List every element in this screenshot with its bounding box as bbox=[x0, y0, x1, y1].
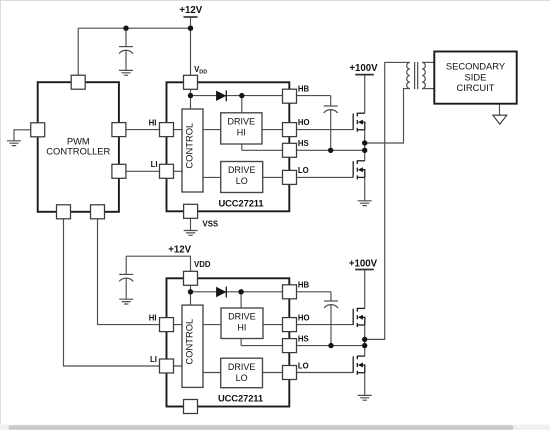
svg-text:HS: HS bbox=[298, 334, 309, 343]
capacitor C4 (bootstrap, bottom bridge) bbox=[324, 301, 338, 308]
wire U2 CONTROL to DRIVE LO to LO pin to Q4 gate bbox=[203, 372, 353, 374]
wire down to PWM top pin bbox=[77, 28, 79, 75]
junction U2 diode cathode node bbox=[238, 289, 243, 294]
svg-text:HB: HB bbox=[298, 85, 310, 94]
wire HB net U1 through diode D1 to bootstrap cap C2 bbox=[191, 95, 331, 97]
svg-text:+100V: +100V bbox=[349, 258, 378, 269]
pin PWM right LI out bbox=[112, 164, 126, 178]
svg-text:HI: HI bbox=[149, 119, 157, 128]
wire switch node to Q2 drain bbox=[364, 150, 366, 161]
pin PWM right HI out bbox=[112, 123, 126, 137]
svg-text:LO: LO bbox=[236, 176, 248, 186]
wire U2 VDD pin down to CONTROL bbox=[190, 278, 192, 305]
ground at Q2 source bbox=[358, 201, 372, 206]
wire capacitor C3 stem upper bbox=[125, 256, 127, 274]
wire U1 VDD pin down to CONTROL bbox=[190, 82, 192, 109]
pin U1 HB bbox=[283, 89, 297, 103]
svg-text:VSS: VSS bbox=[203, 220, 219, 229]
wire capacitor C1 stem lower bbox=[125, 51, 127, 71]
pin U1 LO bbox=[283, 170, 297, 184]
svg-text:SIDE: SIDE bbox=[465, 71, 487, 82]
junction U1 diode cathode node bbox=[239, 93, 244, 98]
pin U2 HS bbox=[283, 339, 297, 353]
pin U1 VDD bbox=[184, 75, 198, 89]
svg-text:+12V: +12V bbox=[179, 5, 202, 16]
pin U1 VSS bbox=[184, 204, 198, 218]
junction U1 VDD node bbox=[188, 93, 193, 98]
wire capacitor C3 stem lower bbox=[125, 278, 127, 299]
junction switch node bottom at HS bbox=[362, 343, 367, 348]
wire C4 stem lower to HS net bbox=[330, 305, 332, 346]
svg-text:+12V: +12V bbox=[168, 244, 191, 255]
wire +12V rail down to VDD pin U1 bbox=[190, 17, 192, 75]
supply bar +100V bottom bridge bbox=[355, 269, 374, 271]
transformer T1 bbox=[407, 62, 426, 89]
pin U2 HB bbox=[283, 285, 297, 299]
svg-text:HB: HB bbox=[298, 280, 310, 289]
wire +100V to Q3 drain bbox=[364, 270, 366, 309]
svg-text:LI: LI bbox=[151, 160, 158, 169]
wire T1 secondary top lead bbox=[422, 61, 434, 63]
wire T1 secondary bottom lead bbox=[422, 88, 434, 90]
pin U2 LO bbox=[283, 366, 297, 380]
ground at U1 VSS bbox=[184, 231, 198, 236]
svg-text:CIRCUIT: CIRCUIT bbox=[456, 82, 494, 93]
wire C2 stem upper bbox=[330, 96, 332, 106]
junction switch node top at HS bbox=[362, 148, 367, 153]
junction switch node top (to transformer) bbox=[362, 140, 367, 145]
U2 DRIVE HI sub-block bbox=[221, 308, 263, 339]
supply bar +12V top bbox=[184, 16, 198, 18]
ground at PWM left pin bbox=[7, 141, 21, 146]
op-amp U2 outer box UCC27211 bottom bbox=[167, 278, 290, 406]
secondary side circuit block bbox=[434, 52, 516, 104]
wire Q2 source to ground bbox=[364, 177, 366, 200]
svg-text:LO: LO bbox=[236, 373, 248, 383]
wire PWM left pin to ground bbox=[14, 130, 31, 141]
pin U1 HO bbox=[283, 123, 297, 137]
svg-text:HI: HI bbox=[237, 127, 246, 137]
svg-text:HO: HO bbox=[298, 118, 310, 127]
capacitor C3 (12V bypass, bottom) bbox=[119, 274, 133, 281]
svg-text:DRIVE: DRIVE bbox=[228, 312, 256, 322]
wire diode junction down to DRIVE HI bbox=[241, 96, 243, 113]
PWM controller block U3 bbox=[38, 82, 119, 212]
transistor Q1 (high-side MOSFET, top bridge) bbox=[353, 113, 365, 132]
wire DRIVE HI bottom to HS pin bbox=[241, 144, 243, 150]
svg-text:CONTROL: CONTROL bbox=[184, 319, 195, 365]
wire U1 CONTROL to DRIVE LO to LO pin to Q2 gate bbox=[203, 176, 353, 178]
ground below capacitor C1 bbox=[119, 70, 133, 75]
svg-text:DRIVE: DRIVE bbox=[228, 362, 256, 372]
wire U1 VSS pin to ground bbox=[190, 205, 192, 231]
junction +12V rail at VDD wire bbox=[188, 26, 193, 31]
supply bar +100V top bridge bbox=[355, 74, 374, 76]
svg-text:HI: HI bbox=[149, 314, 157, 323]
capacitor C1 (12V bypass near PWM) bbox=[119, 47, 133, 54]
junction switch node bottom (to transformer) bbox=[362, 337, 367, 342]
wire Q1 source to switch node bbox=[364, 130, 366, 151]
svg-text:VDD: VDD bbox=[194, 65, 207, 76]
pin PWM top bbox=[71, 75, 85, 89]
svg-text:HI: HI bbox=[237, 323, 246, 333]
U2 CONTROL sub-block bbox=[182, 305, 203, 387]
svg-text:DRIVE: DRIVE bbox=[228, 165, 256, 175]
ground at Q4 source bbox=[358, 395, 372, 400]
wire bottom switch node to transformer wire bbox=[365, 338, 385, 340]
junction HS net at C4 bbox=[328, 343, 333, 348]
pin U1 HI bbox=[160, 123, 174, 137]
svg-text:LO: LO bbox=[298, 361, 309, 370]
svg-text:UCC27211: UCC27211 bbox=[218, 197, 263, 208]
wire PWM bottom pin2 down to U2 HI bbox=[98, 212, 354, 325]
U2 DRIVE LO sub-block bbox=[221, 358, 263, 388]
svg-text:HO: HO bbox=[298, 313, 310, 322]
wire T1 primary top to bottom bridge switch node bbox=[365, 62, 410, 339]
svg-text:LO: LO bbox=[298, 166, 309, 175]
junction HS net at C2 bbox=[328, 148, 333, 153]
pin U2 VDD bbox=[184, 271, 198, 285]
svg-text:UCC27211: UCC27211 bbox=[218, 393, 263, 404]
wire LI net PWM to U1 CONTROL bbox=[119, 170, 182, 172]
pin U2 HI bbox=[160, 318, 174, 332]
wire +100V to Q1 drain bbox=[364, 75, 366, 114]
wire C4 stem upper bbox=[330, 292, 332, 301]
ground below capacitor C3 bbox=[119, 299, 133, 304]
wire diode junction down to U2 DRIVE HI bbox=[240, 292, 242, 308]
U1 DRIVE LO sub-block bbox=[221, 162, 263, 193]
transistor Q2 (low-side MOSFET, top bridge) bbox=[353, 160, 365, 179]
wire +12V rail horizontal to PWM bbox=[78, 27, 190, 29]
pin U2 VSS bbox=[184, 400, 198, 414]
wire Q4 source to ground bbox=[364, 373, 366, 396]
svg-text:+100V: +100V bbox=[349, 63, 378, 74]
svg-text:VDD: VDD bbox=[194, 260, 211, 269]
svg-text:DRIVE: DRIVE bbox=[228, 116, 256, 126]
svg-text:HS: HS bbox=[298, 139, 309, 148]
svg-text:LI: LI bbox=[150, 355, 157, 364]
diode D2 (bootstrap, U2) bbox=[216, 287, 226, 298]
pin U2 LI bbox=[160, 359, 174, 373]
wire HS net bottom to switch node bbox=[241, 345, 365, 347]
wire U2 DRIVE HI bottom to HS pin bbox=[240, 339, 242, 346]
wire secondary circuit ground stem bbox=[499, 104, 501, 116]
junction U2 VDD node bbox=[188, 289, 193, 294]
pin PWM left (ground) bbox=[31, 123, 45, 137]
junction +12V rail at PWM branch bbox=[123, 26, 128, 31]
wire PWM bottom pin1 down to U2 LI bbox=[64, 212, 183, 366]
pin U2 HO bbox=[283, 318, 297, 332]
wire HI net PWM to U1 gate drive path bbox=[119, 129, 353, 131]
U1 DRIVE HI sub-block bbox=[221, 113, 262, 144]
pin PWM bottom 2 bbox=[91, 205, 105, 219]
wire +12V bottom to U2 VDD bbox=[126, 256, 190, 271]
op-amp U1 outer box UCC27211 top bbox=[167, 82, 290, 211]
wire Q3 source to switch node bbox=[364, 325, 366, 346]
pin U1 LI bbox=[160, 164, 174, 178]
ground arrow below secondary side circuit bbox=[493, 115, 507, 124]
capacitor C2 (bootstrap, top bridge) bbox=[324, 106, 338, 113]
scrollbar thumb bbox=[9, 425, 514, 430]
svg-text:CONTROLLER: CONTROLLER bbox=[46, 146, 110, 157]
U1 CONTROL sub-block bbox=[182, 109, 203, 192]
pin U1 HS bbox=[283, 143, 297, 157]
wire switch node to transformer T1 primary bottom bbox=[365, 89, 410, 143]
wire switch node to Q4 drain bbox=[364, 346, 366, 357]
transistor Q4 (low-side MOSFET, bottom bridge) bbox=[353, 356, 365, 375]
transistor Q3 (high-side MOSFET, bottom bridge) bbox=[353, 308, 365, 327]
svg-text:CONTROL: CONTROL bbox=[184, 123, 195, 169]
pin PWM bottom 1 bbox=[57, 205, 71, 219]
wire C2 stem lower to HS net bbox=[330, 110, 332, 151]
wire HS net to switch node bbox=[242, 149, 365, 151]
wire HB net U2 through diode D2 to bootstrap cap C4 bbox=[191, 291, 332, 293]
scrollbar track bbox=[0, 425, 550, 430]
wire capacitor C1 stem upper bbox=[125, 28, 127, 46]
svg-text:SECONDARY: SECONDARY bbox=[446, 60, 506, 71]
diode D1 (bootstrap, U1) bbox=[216, 90, 226, 101]
